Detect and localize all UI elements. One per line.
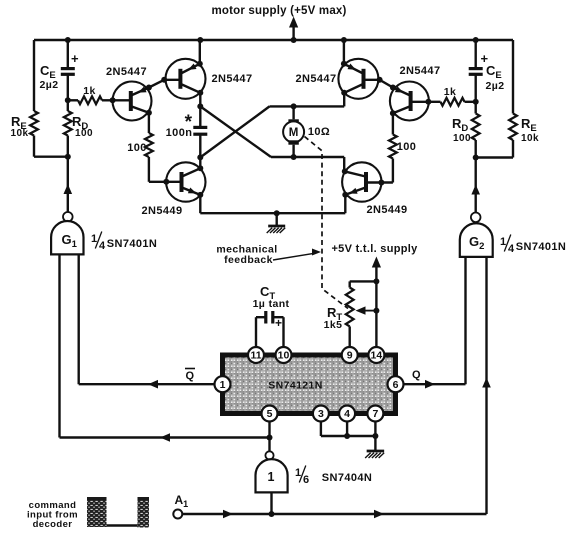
- node: node A (left upper): [197, 103, 203, 109]
- node: Q4 collector dot: [390, 110, 396, 116]
- label: 2N5447 Q2: [212, 73, 253, 85]
- Q3 collector: [344, 84, 363, 93]
- svg-text:2N5449: 2N5449: [367, 204, 408, 216]
- dashed mechanical feedback link: [305, 137, 349, 309]
- label: 1/4 SN7401N (G1): [91, 232, 157, 253]
- wire: ground stub: [276, 213, 278, 226]
- pin 6: [388, 376, 404, 392]
- wire: G1 right input leg: [77, 254, 79, 384]
- label: A1: [175, 493, 189, 509]
- svg-text:4: 4: [508, 243, 515, 255]
- wire: pin1 to G1 with arrow: [79, 380, 215, 389]
- svg-text:1: 1: [295, 467, 301, 479]
- wire: CE left top lead: [67, 40, 69, 68]
- node: pin5 junction: [267, 435, 273, 441]
- label: 10 ohm: [308, 126, 330, 138]
- G1 output bubble: [63, 212, 73, 222]
- Q3 emitter with arrow: [344, 64, 363, 74]
- wire: RE right bottom: [476, 140, 513, 158]
- pin 3: [313, 406, 329, 422]
- label: G1: [62, 232, 78, 250]
- svg-text:4: 4: [344, 408, 350, 420]
- node: Q3 emitter dot: [341, 61, 347, 67]
- label: motor supply (+5V max): [211, 5, 346, 17]
- wire: 100ohm right column: [389, 113, 397, 182]
- RT wiper arrow: [356, 306, 377, 314]
- transistor Q6 2N5449 lower-right: [342, 162, 381, 201]
- ground symbol (IC): [365, 436, 384, 458]
- node: T1 base terminal: [110, 97, 116, 103]
- label: 2N5447 Q4: [400, 65, 441, 77]
- inverter output bubble: [265, 451, 273, 459]
- svg-text:SN7401N: SN7401N: [107, 238, 158, 250]
- ground symbol (motor bridge): [267, 226, 286, 233]
- label: RD right: [452, 116, 468, 134]
- svg-text:M: M: [289, 127, 299, 139]
- svg-text:11: 11: [250, 350, 261, 362]
- node: Q3 collector dot: [341, 90, 347, 96]
- wire: G2 output to junction with arrow: [471, 158, 480, 213]
- node: RT wiper junction: [373, 308, 379, 314]
- label: RE left: [11, 114, 27, 132]
- svg-text:6: 6: [303, 474, 309, 486]
- Q6 emitter with arrow: [345, 188, 365, 195]
- pin 9: [342, 347, 358, 363]
- node: Q6 collector dot: [342, 168, 348, 174]
- label: 2u2 right: [486, 80, 505, 92]
- svg-text:+5V t.t.l. supply: +5V t.t.l. supply: [331, 243, 418, 255]
- Q4 base wire: [411, 101, 429, 103]
- svg-text:2N5449: 2N5449: [142, 205, 183, 217]
- svg-text:100: 100: [127, 142, 147, 154]
- node: Q4 base terminal: [425, 99, 431, 105]
- label: 1k right: [444, 86, 456, 98]
- svg-text:SN7404N: SN7404N: [322, 472, 373, 484]
- wire: left node column upper: [199, 93, 201, 127]
- wire: CT left lead: [256, 317, 266, 347]
- node: RD/RE bottom junction left: [65, 154, 71, 160]
- wire: right riser lower: [343, 157, 345, 171]
- label: 2N5447 Q3: [296, 73, 337, 85]
- wire: cross diagonal B to upper-right: [200, 106, 269, 157]
- node: RD/RE bottom junction right: [473, 155, 479, 161]
- svg-text:3: 3: [318, 408, 324, 420]
- node: Q5 base terminal: [163, 179, 169, 185]
- wire: RE left bottom: [34, 136, 68, 157]
- svg-text:100n: 100n: [166, 127, 193, 139]
- capacitor CE left 2u2: [61, 51, 79, 74]
- label: CE right: [486, 63, 502, 81]
- wire: pin5 to G1 left leg with arrow: [60, 433, 270, 442]
- pin 5: [262, 406, 278, 422]
- pin 7: [367, 406, 383, 422]
- gate G2 1/4 SN7401N: [460, 223, 493, 257]
- svg-text:1: 1: [91, 233, 97, 245]
- label: 10k right: [521, 133, 539, 144]
- wire: Q6 emitter down: [344, 195, 346, 213]
- wire: right branch down from rail: [512, 40, 514, 114]
- wire: inverter output: [268, 438, 270, 452]
- wire: Q2 base: [164, 79, 180, 81]
- svg-text:2µ2: 2µ2: [486, 80, 505, 92]
- pin 11: [248, 347, 264, 363]
- wire: pin3 strap: [321, 422, 376, 437]
- node: RT top junction: [373, 278, 379, 284]
- svg-text:10Ω: 10Ω: [308, 126, 330, 138]
- wire: Q4 emitter diagonal: [380, 80, 393, 88]
- svg-text:1: 1: [268, 470, 275, 484]
- node: pin7 junction: [372, 433, 378, 439]
- wire: lower horizontal to motor: [271, 156, 344, 158]
- node: Q2 collector dot: [197, 90, 203, 96]
- node: Q1 emitter dot: [146, 85, 152, 91]
- wire: G1 left input leg: [58, 254, 60, 437]
- label: asterisk: [185, 112, 193, 133]
- capacitor CT 1u: [266, 311, 282, 330]
- node: Q6 base terminal: [378, 180, 384, 186]
- svg-text:100: 100: [397, 141, 417, 153]
- wire: inverter input: [270, 492, 272, 514]
- svg-text:2N5447: 2N5447: [106, 66, 147, 78]
- command input waveform: [87, 497, 149, 528]
- resistor 1k left: [68, 96, 113, 104]
- wire: G1 output to junction with arrow: [64, 157, 73, 213]
- label: RT: [327, 305, 342, 323]
- resistor RT 1k5 trimmer: [346, 281, 377, 346]
- pin 1: [215, 376, 231, 392]
- label: 100 left-mid: [127, 142, 147, 154]
- wire: Q6 base: [366, 181, 393, 183]
- wire: pin6 Q output with arrow: [404, 380, 466, 389]
- label: +5V ttl supply: [331, 243, 418, 255]
- wire: Q3 emitter to rail: [343, 40, 345, 64]
- Q4 collector: [393, 106, 410, 113]
- node: Q5 emitter dot: [197, 192, 203, 198]
- label: command input from decoder: [27, 500, 78, 530]
- svg-text:1k5: 1k5: [324, 319, 343, 331]
- node: CE/RD/1k junction right: [473, 99, 479, 105]
- Q1 emitter with arrow: [131, 87, 149, 96]
- node: inverter input junction: [269, 511, 275, 517]
- label: CE left: [40, 63, 56, 81]
- node: rail / T2 emitter: [197, 37, 203, 43]
- gate U2 1/6 SN7404N inverter: [256, 459, 288, 492]
- svg-text:14: 14: [371, 350, 383, 362]
- svg-text:10k: 10k: [11, 128, 29, 139]
- transistor Q3 2N5447 inner-right: [338, 59, 378, 99]
- node: rail / CE left: [65, 37, 71, 43]
- node: motor top junction: [291, 103, 297, 109]
- label: RE right: [521, 116, 537, 134]
- node: CE/RD/1k junction left: [65, 97, 71, 103]
- wire: left node column lower: [199, 134, 201, 168]
- terminal A1: [173, 510, 182, 519]
- wire: upper horizontal to motor: [270, 105, 345, 107]
- wire: Q5 base: [149, 181, 182, 183]
- label: mechanical feedback: [216, 244, 277, 267]
- Q2 emitter with arrow: [181, 64, 200, 74]
- svg-text:1µ tant: 1µ tant: [253, 298, 290, 310]
- wire: pin7 down: [374, 422, 376, 437]
- node: Q2 emitter dot: [197, 61, 203, 67]
- motor M with terminals: [283, 106, 304, 157]
- transistor Q1 2N5447 outer-left: [113, 82, 152, 121]
- pin 14: [368, 347, 384, 363]
- label: 10k left: [11, 128, 29, 139]
- svg-text:Q: Q: [186, 370, 195, 382]
- resistor RD right 100: [472, 102, 480, 158]
- label: 2N5449 Q5: [142, 205, 183, 217]
- label: Q: [412, 369, 421, 381]
- resistor 1k right: [428, 98, 475, 106]
- wire: pin4 down: [346, 422, 348, 437]
- transistor Q2 2N5447 inner-left: [166, 59, 206, 99]
- label: 1/6 SN7404N: [295, 466, 372, 487]
- capacitor 100n: [193, 127, 207, 134]
- node: Q2 base corner dot: [161, 77, 167, 83]
- svg-text:2µ2: 2µ2: [40, 79, 59, 91]
- Q1 collector: [131, 106, 149, 113]
- Q2 collector: [181, 84, 201, 93]
- pin 10: [276, 347, 292, 363]
- Q6 collector: [345, 171, 366, 176]
- node: Q5 collector dot: [197, 165, 203, 171]
- wire: G2 left input leg: [464, 257, 466, 384]
- svg-text:2N5447: 2N5447: [296, 73, 337, 85]
- node: rail / motor supply: [291, 37, 297, 43]
- wire: CT right lead: [273, 317, 284, 347]
- G2 output bubble: [471, 213, 481, 223]
- wire: CE left bottom lead: [67, 74, 69, 100]
- wire: Q3 base link: [364, 79, 380, 81]
- node: node B (left lower): [197, 154, 203, 160]
- label: 1u tant: [253, 298, 290, 310]
- svg-text:2N5447: 2N5447: [400, 65, 441, 77]
- label: 100 right-mid: [397, 141, 417, 153]
- label: RD left: [72, 114, 88, 132]
- wire: emitter ground bus: [200, 212, 345, 214]
- wire: CE right bottom lead: [475, 74, 477, 102]
- svg-text:10: 10: [278, 350, 290, 362]
- resistor RD left 100: [64, 100, 72, 156]
- svg-text:4: 4: [99, 240, 106, 252]
- wire: left branch down from rail: [33, 40, 35, 111]
- svg-text:7: 7: [372, 408, 378, 420]
- wire: 100ohm left column: [145, 113, 153, 182]
- svg-text:10k: 10k: [521, 133, 539, 144]
- svg-text:Q: Q: [412, 369, 421, 381]
- node: Q1 collector dot: [146, 110, 152, 116]
- wire: +5V motor supply rail: [34, 39, 513, 41]
- wire: pin5 down: [268, 422, 270, 438]
- label: 1k5: [324, 319, 343, 331]
- svg-text:2N5447: 2N5447: [212, 73, 253, 85]
- svg-text:+: +: [71, 51, 79, 66]
- wire: CE right top lead: [475, 40, 477, 68]
- svg-text:5: 5: [267, 408, 273, 420]
- Q5 emitter with arrow: [182, 188, 200, 195]
- +5V supply arrow line: [372, 257, 381, 347]
- svg-text:1k: 1k: [444, 86, 456, 98]
- wire: command line: [182, 510, 486, 519]
- label: G2: [469, 234, 484, 252]
- resistor RE left 10k: [30, 111, 38, 136]
- node: Q4 emitter dot: [390, 85, 396, 91]
- wire: T1 base inside: [113, 99, 131, 101]
- node: Q6 emitter dot: [342, 192, 348, 198]
- label: 1 (inverter): [268, 470, 275, 484]
- capacitor CE right 2u2: [469, 51, 489, 74]
- pin 4: [339, 406, 355, 422]
- wire: cross diagonal A to lower-right: [200, 106, 271, 157]
- svg-text:1: 1: [500, 236, 506, 248]
- Q5 collector: [182, 168, 200, 176]
- label: 100 right: [453, 133, 471, 144]
- resistor RE right 10k: [509, 114, 517, 141]
- svg-text:feedback: feedback: [224, 254, 273, 266]
- label: CT: [260, 284, 275, 302]
- wire: Q2 emitter to rail: [199, 40, 201, 64]
- wire: right riser upper: [343, 93, 345, 107]
- label: Q-bar: [185, 369, 195, 383]
- label: 2N5449 Q6: [367, 204, 408, 216]
- label: 100n: [166, 127, 193, 139]
- IC U1 SN74121N body: [223, 355, 396, 414]
- node: Q4 emitter corner dot: [377, 77, 383, 83]
- node: motor bottom junction: [291, 154, 297, 160]
- wire: G2 right input leg: [482, 257, 491, 514]
- Q4 emitter inner with arrow: [393, 86, 410, 95]
- wire: Q5 emitter down: [199, 195, 201, 213]
- label: 100 left: [75, 128, 93, 139]
- node: ground tap: [274, 210, 280, 216]
- svg-text:1: 1: [220, 379, 226, 391]
- gate G1 1/4 SN7401N: [51, 221, 83, 254]
- node: rail / CE right: [473, 37, 479, 43]
- node: rail / T3 emitter: [341, 37, 347, 43]
- svg-text:100: 100: [453, 133, 471, 144]
- svg-text:SN7401N: SN7401N: [516, 241, 567, 253]
- transistor Q5 2N5449 lower-left: [166, 162, 205, 201]
- label: 1k left: [83, 85, 95, 97]
- transistor Q4 2N5447 outer-right: [390, 82, 429, 121]
- label: 2N5447 Q1: [106, 66, 147, 78]
- svg-text:100: 100: [75, 128, 93, 139]
- svg-text:motor supply (+5V max): motor supply (+5V max): [211, 5, 346, 17]
- wire: Q2 base link diagonal: [149, 80, 164, 88]
- label: 2u2 left: [40, 79, 59, 91]
- label: 1/4 SN7401N (G2): [500, 235, 566, 256]
- svg-text:SN74121N: SN74121N: [268, 380, 323, 392]
- node: pin4 junction: [344, 433, 350, 439]
- svg-text:decoder: decoder: [33, 519, 73, 530]
- svg-text:9: 9: [347, 350, 353, 362]
- feedback pointer arrow: [273, 249, 321, 261]
- svg-text:1k: 1k: [83, 85, 95, 97]
- motor supply terminal arrow: [289, 17, 298, 41]
- svg-text:6: 6: [393, 379, 399, 391]
